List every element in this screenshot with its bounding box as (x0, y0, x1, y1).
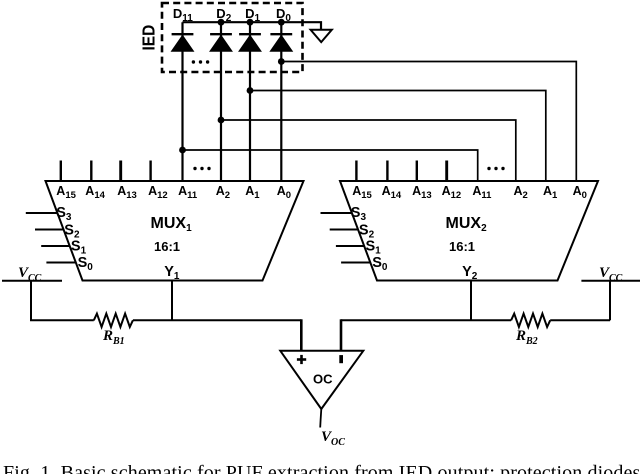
label D0 (276, 6, 291, 24)
pin stub MUX1 A14 (90, 161, 92, 182)
junction D2 tap (218, 117, 225, 124)
pin label MUX2 A14 (382, 184, 402, 201)
pin label MUX2 A2 (514, 184, 528, 201)
svg-text:16:1: 16:1 (449, 239, 475, 254)
pin label MUX2 S0 (372, 255, 388, 273)
wire Y1 output (171, 281, 173, 321)
pin minus of comparator (339, 355, 343, 363)
wire ground rail (183, 22, 322, 30)
label MUX1 (151, 215, 193, 234)
diode D0 (270, 34, 292, 51)
label RB1 (102, 328, 125, 347)
pin stub MUX1 S2 (35, 229, 64, 231)
pin label MUX2 A11 (472, 184, 492, 201)
pin stub MUX2 S2 (330, 229, 359, 231)
junction D1 top (247, 19, 254, 26)
label MUX1 16:1 (154, 239, 180, 254)
wire RB1 to comparator plus (133, 319, 301, 351)
pin stub MUX1 S3 (26, 212, 58, 214)
pin stub MUX2 S3 (321, 212, 353, 214)
pin label Y2 (462, 264, 478, 282)
junction D0 top (278, 19, 285, 26)
pin label MUX1 A11 (178, 184, 198, 201)
wire D0 to MUX2 A0 (281, 62, 576, 182)
pin label MUX1 A12 (148, 184, 168, 201)
pin label MUX2 S2 (359, 223, 375, 241)
op-amp OC comparator (280, 351, 363, 409)
diode D11 (172, 34, 194, 51)
pin stub MUX2 A12 (445, 161, 448, 182)
caption Fig. 1 (3, 462, 640, 474)
pin stub MUX2 S1 (336, 245, 365, 247)
wire RB2 to Vcc right (550, 319, 610, 321)
pin stub MUX1 A15 (60, 161, 62, 182)
pin label MUX2 A12 (442, 184, 462, 201)
svg-text:MUX1: MUX1 (151, 215, 193, 234)
diode D2 (210, 34, 232, 51)
label MUX2 (446, 215, 488, 234)
pin label MUX2 A15 (352, 184, 372, 201)
junction D0 tap (278, 58, 285, 65)
pin stub MUX2 A13 (416, 161, 418, 182)
resistor RB2 (511, 314, 550, 327)
wire D2 to MUX2 A2 (221, 120, 516, 181)
node Voc label (321, 429, 345, 448)
pin stub MUX1 A13 (119, 161, 122, 182)
label RB2 (515, 328, 538, 347)
diode D1 (239, 34, 261, 51)
pin label MUX1 A0 (277, 184, 291, 201)
node Vcc left label (18, 265, 42, 284)
node Vcc right rail (581, 280, 640, 282)
wire cathode line D2 to MUX1 A2 (220, 22, 222, 181)
pin label MUX1 S2 (64, 223, 80, 241)
IED label (139, 25, 159, 51)
wire comparator minus to RB2 (341, 319, 511, 351)
svg-text:MUX2: MUX2 (446, 215, 488, 234)
mux MUX2 body (340, 181, 598, 281)
pin label Y1 (164, 264, 180, 282)
pin label MUX1 A1 (245, 184, 260, 201)
pin label MUX2 A0 (573, 184, 587, 201)
node Vcc right label (599, 265, 623, 284)
ground (311, 30, 332, 42)
pin stub MUX1 S1 (41, 245, 69, 247)
pin label MUX2 A1 (543, 184, 558, 201)
pin plus of comparator (297, 355, 306, 364)
pin label MUX2 A13 (412, 184, 432, 201)
wire Y2 output (470, 281, 472, 321)
pin label MUX1 A14 (85, 184, 105, 201)
wire Vcc right down (609, 281, 611, 321)
pin label MUX1 S3 (56, 205, 72, 223)
pin stub MUX1 S0 (46, 262, 75, 264)
pin stub MUX2 A14 (386, 161, 388, 182)
label OC (313, 372, 333, 387)
pin label MUX1 S1 (71, 239, 87, 257)
svg-text:OC: OC (313, 372, 333, 387)
pin stub MUX1 A12 (149, 161, 151, 182)
pin label MUX1 A13 (117, 184, 137, 201)
ellipsis MUX1 inputs (193, 167, 210, 170)
wire Vcc left down (31, 281, 94, 321)
junction D2 top (218, 19, 225, 26)
node Vcc left rail (2, 280, 62, 282)
ellipsis MUX2 inputs (487, 167, 504, 170)
wire Voc output (320, 409, 321, 428)
ellipsis inside IED box (192, 60, 210, 63)
label D11 (173, 6, 193, 24)
svg-text:IED: IED (139, 25, 159, 51)
pin label MUX1 A15 (56, 184, 76, 201)
pin label MUX2 S3 (351, 205, 367, 223)
pin stub MUX2 S0 (341, 262, 370, 264)
resistor RB1 (94, 314, 133, 327)
wire cathode line D1 to MUX1 A1 (249, 22, 251, 181)
junction D1 tap (247, 87, 254, 94)
wire cathode line D0 to MUX1 A0 (280, 22, 282, 181)
pin label MUX2 S1 (366, 239, 382, 257)
label MUX2 16:1 (449, 239, 475, 254)
svg-text:Fig. 1. Basic schematic for PU: Fig. 1. Basic schematic for PUF extracti… (3, 462, 640, 474)
svg-text:16:1: 16:1 (154, 239, 180, 254)
junction D11 tap (179, 147, 186, 154)
wire D11 to MUX2 A11 (183, 150, 478, 181)
wire cathode line D11 to MUX1 A11 (181, 22, 183, 181)
pin label MUX1 S0 (78, 255, 94, 273)
pin label MUX1 A2 (216, 184, 230, 201)
mux MUX1 body (46, 181, 304, 281)
IED dashed box (162, 3, 303, 72)
wire D1 to MUX2 A1 (250, 91, 546, 182)
label D1 (245, 6, 260, 24)
label D2 (216, 6, 231, 24)
pin stub MUX2 A15 (355, 161, 357, 182)
